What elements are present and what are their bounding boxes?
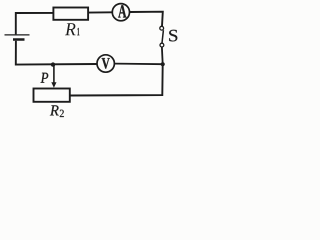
battery short thick plate xyxy=(13,38,25,41)
wire battery top to R1 (left vertical + top-left segment) xyxy=(16,13,53,35)
label P xyxy=(41,73,49,83)
rheostat R2 xyxy=(34,89,70,102)
wire switch to right junction xyxy=(161,47,164,64)
label S xyxy=(169,30,177,42)
label R2 "R" xyxy=(50,105,59,115)
resistor R1 xyxy=(53,8,88,20)
wire R1 to ammeter xyxy=(88,11,112,13)
switch S blade xyxy=(162,30,163,43)
switch S top terminal xyxy=(160,26,164,30)
junction dot right xyxy=(161,62,165,66)
wire ammeter to top-right corner, down to switch xyxy=(130,12,163,27)
label V xyxy=(102,58,110,69)
wire battery bottom + middle wire to voltmeter xyxy=(16,41,97,65)
voltmeter xyxy=(97,55,114,72)
junction dot wiper xyxy=(51,62,55,66)
label R2 subscript "2" xyxy=(60,110,64,117)
wiper arrow of R2 xyxy=(53,65,55,83)
wire right vertical down and bottom wire to R2 xyxy=(70,64,162,95)
battery long plate xyxy=(5,34,30,36)
label R1 "R" xyxy=(65,23,76,35)
switch S bottom terminal xyxy=(160,43,164,47)
label R1 subscript "1" xyxy=(77,28,79,35)
ammeter xyxy=(112,4,129,21)
label A xyxy=(118,5,126,17)
wire voltmeter to right junction xyxy=(115,63,163,66)
